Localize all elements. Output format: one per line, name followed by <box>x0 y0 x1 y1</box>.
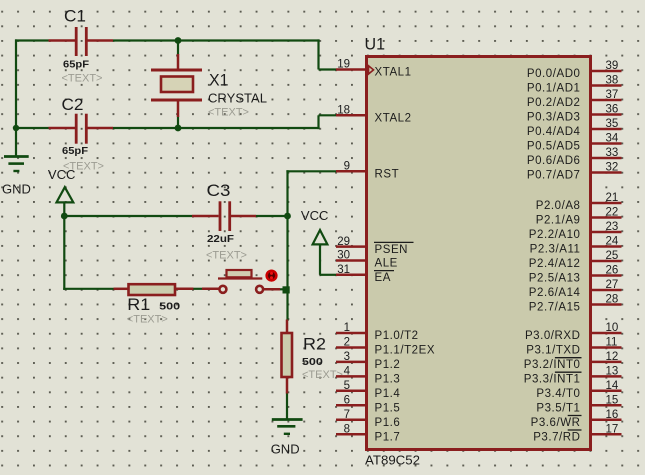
svg-text:17: 17 <box>606 423 619 435</box>
svg-text:31: 31 <box>337 264 350 276</box>
pin 24 P2.3/A11 <box>530 236 622 256</box>
pin 32 P0.7/AD7 <box>527 162 622 182</box>
ground GND (bottom, under R2) <box>271 420 303 457</box>
svg-text:CRYSTAL: CRYSTAL <box>208 92 267 106</box>
pin 4 P1.3 <box>336 366 400 386</box>
svg-text:RST: RST <box>375 169 400 181</box>
svg-text:11: 11 <box>606 337 618 349</box>
pin 22 P2.1/A9 <box>536 207 622 227</box>
svg-text:GND: GND <box>271 442 300 457</box>
lead: R2 top <box>286 320 289 334</box>
svg-text:19: 19 <box>337 59 350 71</box>
pin 3 P1.2 <box>336 351 400 371</box>
pin 9 RST <box>336 161 399 181</box>
wire: left vertical C1-C2-GND <box>15 39 17 157</box>
svg-text:29: 29 <box>337 236 350 248</box>
pin 36 P0.3/AD3 <box>527 104 622 124</box>
svg-text:P3.7/RD: P3.7/RD <box>533 431 580 443</box>
svg-text:38: 38 <box>606 75 619 87</box>
crystal X1 <box>151 70 267 119</box>
pin 14 P3.4/T0 <box>536 380 621 400</box>
svg-text:<TEXT>: <TEXT> <box>208 107 249 119</box>
pin 6 P1.5 <box>336 395 400 415</box>
pin 31 EA <box>336 264 394 284</box>
pin 7 P1.6 <box>336 409 400 429</box>
svg-text:36: 36 <box>606 104 619 116</box>
svg-text:500: 500 <box>159 302 181 313</box>
wire: button to junction <box>279 288 289 290</box>
svg-text:P2.1/A9: P2.1/A9 <box>536 215 581 227</box>
svg-text:23: 23 <box>606 221 619 233</box>
svg-text:R1: R1 <box>127 295 150 314</box>
wire: corner down to XTAL1 row <box>317 39 319 69</box>
svg-text:GND: GND <box>2 182 31 197</box>
ground GND (top left) <box>2 157 31 197</box>
svg-text:30: 30 <box>337 250 350 262</box>
pin 21 P2.0/A8 <box>536 192 622 212</box>
svg-text:ALE: ALE <box>375 258 398 270</box>
svg-text:4: 4 <box>344 366 351 378</box>
svg-text:XTAL2: XTAL2 <box>375 113 412 125</box>
svg-text:<TEXT>: <TEXT> <box>206 250 247 262</box>
wire: into XTAL2 pin <box>319 114 337 116</box>
svg-text:1: 1 <box>344 322 350 334</box>
wire: main vertical RST to R2 <box>286 170 288 321</box>
svg-text:EA: EA <box>375 272 391 284</box>
svg-text:8: 8 <box>344 423 350 435</box>
svg-text:9: 9 <box>344 161 350 173</box>
pin 5 P1.4 <box>336 380 400 400</box>
svg-text:P2.4/A12: P2.4/A12 <box>529 258 581 270</box>
marker: component origin (red) <box>265 270 277 282</box>
svg-text:P3.6/WR: P3.6/WR <box>531 417 581 429</box>
svg-text:P0.3/AD3: P0.3/AD3 <box>527 112 581 124</box>
lead: R1 right <box>176 288 193 291</box>
svg-text:5: 5 <box>344 380 350 392</box>
pin 19 XTAL1 <box>336 59 412 79</box>
svg-text:P3.1/TXD: P3.1/TXD <box>526 345 580 357</box>
lead: button right <box>264 288 281 291</box>
wire: VCC2 to EA pin <box>320 274 336 276</box>
pin 37 P0.2/AD2 <box>527 89 622 109</box>
marker: XTAL1 clock input triangle <box>369 66 374 74</box>
wire: VCC stem down to R1 corner <box>63 202 65 290</box>
svg-text:P2.3/A11: P2.3/A11 <box>530 244 581 256</box>
svg-text:PSEN: PSEN <box>375 244 409 256</box>
capacitor C2 <box>62 95 104 173</box>
op IC U1 AT89C52 body <box>365 35 591 468</box>
svg-text:P3.0/RXD: P3.0/RXD <box>525 330 581 342</box>
lead: C3 left <box>192 215 219 218</box>
node: junction button row / main vertical <box>283 286 290 293</box>
svg-text:10: 10 <box>606 322 619 334</box>
svg-text:P1.5: P1.5 <box>375 403 401 415</box>
node: junction C3 row / main vertical <box>284 213 291 220</box>
svg-text:P0.6/AD6: P0.6/AD6 <box>527 155 581 167</box>
svg-text:P2.7/A15: P2.7/A15 <box>529 302 581 314</box>
svg-text:P1.7: P1.7 <box>375 431 401 443</box>
svg-text:<TEXT>: <TEXT> <box>302 369 343 381</box>
lead: button left <box>202 288 219 291</box>
pin 1 P1.0/T2 <box>336 322 419 342</box>
svg-text:33: 33 <box>606 147 619 159</box>
svg-text:13: 13 <box>606 366 619 378</box>
pin 27 P2.6/A14 <box>529 279 622 299</box>
lead: C1 right <box>87 39 113 42</box>
wire: C3 row left <box>64 215 192 217</box>
pin 8 P1.7 <box>336 423 400 443</box>
svg-text:28: 28 <box>606 294 619 306</box>
pushbutton switch <box>218 270 263 293</box>
svg-text:P3.4/T0: P3.4/T0 <box>536 388 580 400</box>
wire: VCC2 stem <box>319 244 321 275</box>
wire: crystal bottom stub <box>177 117 179 129</box>
svg-text:2: 2 <box>344 337 350 349</box>
svg-text:7: 7 <box>344 409 350 421</box>
node: junction C2/X1 <box>175 125 182 132</box>
svg-text:P0.1/AD1: P0.1/AD1 <box>527 83 581 95</box>
svg-text:VCC: VCC <box>301 208 329 223</box>
svg-text:R2: R2 <box>303 334 326 353</box>
pin 17 P3.7/RD <box>533 423 621 443</box>
svg-text:<TEXT>: <TEXT> <box>62 73 103 85</box>
svg-text:VCC: VCC <box>48 167 76 182</box>
svg-text:16: 16 <box>606 409 619 421</box>
svg-text:P2.6/A14: P2.6/A14 <box>529 287 581 299</box>
pin 18 XTAL2 <box>336 105 412 125</box>
svg-text:P0.5/AD5: P0.5/AD5 <box>527 141 581 153</box>
resistor R1 <box>127 284 181 325</box>
svg-text:26: 26 <box>606 265 619 277</box>
svg-text:12: 12 <box>606 351 619 363</box>
node: junction left vertical at C2 row <box>13 125 19 131</box>
svg-text:P1.4: P1.4 <box>375 388 401 400</box>
wire: C1 row left segment <box>15 39 49 41</box>
capacitor C3 <box>206 181 247 262</box>
pin 35 P0.4/AD4 <box>527 118 622 138</box>
svg-text:15: 15 <box>606 395 619 407</box>
pin 29 PSEN <box>336 236 414 256</box>
svg-text:22: 22 <box>606 207 619 219</box>
node: junction C1/X1 <box>175 37 182 44</box>
svg-text:27: 27 <box>606 279 619 291</box>
lead: X1 top <box>177 54 180 70</box>
wire: into XTAL1 pin <box>319 68 337 70</box>
svg-text:X1: X1 <box>209 70 229 89</box>
svg-text:P0.2/AD2: P0.2/AD2 <box>527 97 581 109</box>
pin 33 P0.6/AD6 <box>527 147 622 167</box>
pin 23 P2.2/A10 <box>529 221 622 241</box>
svg-text:22uF: 22uF <box>207 234 234 245</box>
lead: R1 left <box>114 288 129 291</box>
lead: X1 bottom <box>177 101 180 118</box>
svg-text:21: 21 <box>606 192 619 204</box>
wire: C1 row right segment to corner <box>113 39 320 41</box>
svg-text:3: 3 <box>344 351 350 363</box>
pin 2 P1.1/T2EX <box>336 337 435 357</box>
svg-text:6: 6 <box>344 395 350 407</box>
pin 30 ALE <box>336 250 398 270</box>
svg-text:65pF: 65pF <box>63 60 89 71</box>
lead: C3 right <box>230 215 256 218</box>
pin 28 P2.7/A15 <box>529 294 622 314</box>
pin 34 P0.5/AD5 <box>527 133 622 153</box>
pin 38 P0.1/AD1 <box>527 75 622 95</box>
svg-text:18: 18 <box>337 105 350 117</box>
pin 39 P0.0/AD0 <box>527 60 622 80</box>
wire: corner up to XTAL2 row <box>317 115 319 129</box>
power VCC (left) <box>48 167 76 203</box>
pin 13 P3.3/INT1 <box>524 366 622 386</box>
wire: C2 row left segment <box>15 127 49 129</box>
svg-text:500: 500 <box>302 357 324 368</box>
svg-text:C3: C3 <box>207 181 231 200</box>
pin 25 P2.4/A12 <box>529 250 622 270</box>
svg-text:U1: U1 <box>365 35 386 54</box>
svg-text:24: 24 <box>606 236 619 248</box>
svg-text:XTAL1: XTAL1 <box>375 67 412 79</box>
pin 10 P3.0/RXD <box>525 322 622 342</box>
svg-text:P3.3/INT1: P3.3/INT1 <box>524 374 581 386</box>
lead: R2 bottom <box>286 377 289 394</box>
svg-text:35: 35 <box>606 118 619 130</box>
svg-text:P0.4/AD4: P0.4/AD4 <box>527 126 581 138</box>
wire: C3 row right <box>256 215 289 217</box>
svg-text:P2.2/A10: P2.2/A10 <box>529 229 581 241</box>
wire: crystal top stub <box>177 41 179 55</box>
lead: C1 left <box>49 39 76 42</box>
svg-text:37: 37 <box>606 89 619 101</box>
svg-text:<TEXT>: <TEXT> <box>127 314 168 326</box>
pin 15 P3.5/T1 <box>536 395 621 415</box>
svg-text:AT89C52: AT89C52 <box>365 453 420 468</box>
svg-text:39: 39 <box>606 60 619 72</box>
svg-text:65pF: 65pF <box>62 146 88 157</box>
svg-text:C1: C1 <box>64 7 86 26</box>
svg-text:P3.5/T1: P3.5/T1 <box>536 403 580 415</box>
svg-text:34: 34 <box>606 133 619 145</box>
resistor R2 <box>282 333 343 381</box>
svg-text:P3.2/INT0: P3.2/INT0 <box>524 359 581 371</box>
svg-text:C2: C2 <box>62 95 84 114</box>
svg-text:P2.0/A8: P2.0/A8 <box>536 200 581 212</box>
pin 26 P2.5/A13 <box>529 265 622 285</box>
lead: C2 right <box>87 127 113 130</box>
capacitor C1 <box>62 7 103 85</box>
svg-text:P1.3: P1.3 <box>375 374 401 386</box>
svg-text:14: 14 <box>606 380 619 392</box>
svg-text:P2.5/A13: P2.5/A13 <box>529 273 581 285</box>
svg-text:32: 32 <box>606 162 619 174</box>
wire: C2 row right segment <box>113 127 320 129</box>
svg-text:P1.0/T2: P1.0/T2 <box>375 330 419 342</box>
svg-text:P1.1/T2EX: P1.1/T2EX <box>375 345 436 357</box>
svg-text:P0.0/AD0: P0.0/AD0 <box>527 68 581 80</box>
pin 12 P3.2/INT0 <box>524 351 622 371</box>
wire: between R1 and button <box>193 288 203 290</box>
wire: RST row <box>286 170 336 172</box>
power VCC (right, to EA) <box>301 208 329 244</box>
svg-text:25: 25 <box>606 250 619 262</box>
lead: C2 left <box>49 127 76 130</box>
svg-text:P1.2: P1.2 <box>375 359 401 371</box>
svg-text:P1.6: P1.6 <box>375 417 401 429</box>
pin 16 P3.6/WR <box>531 409 622 429</box>
pin 11 P3.1/TXD <box>526 337 621 357</box>
node: junction VCC/C3/R1 <box>61 213 68 220</box>
wire: R1 row left <box>63 288 113 290</box>
wire: below R2 to ground <box>286 393 288 420</box>
svg-text:P0.7/AD7: P0.7/AD7 <box>527 170 581 182</box>
